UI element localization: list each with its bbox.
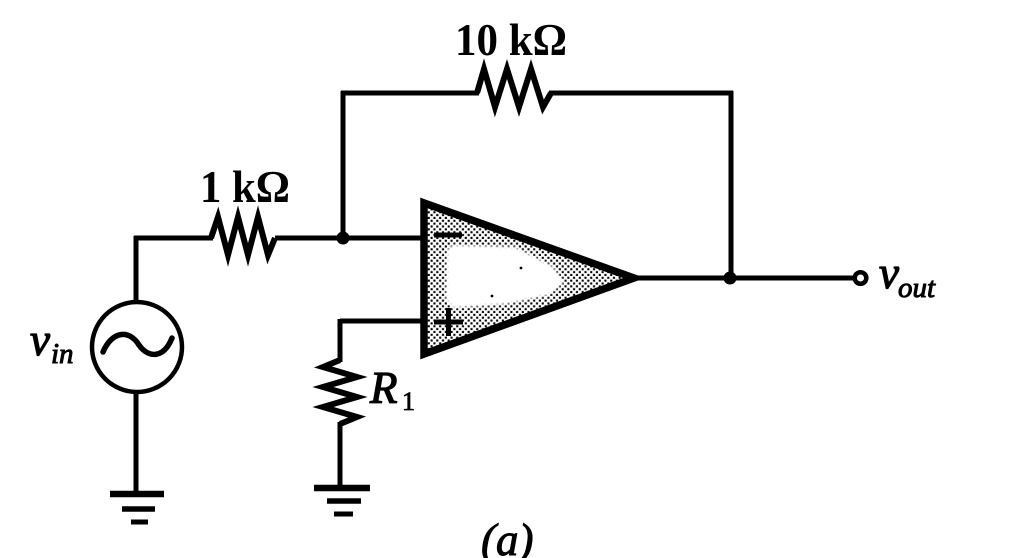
node: inverting input junction bbox=[337, 232, 350, 245]
inverting input minus marker bbox=[434, 233, 462, 238]
svg-text:1 kΩ: 1 kΩ bbox=[200, 162, 290, 212]
resistor 1 kOhm bbox=[211, 217, 275, 255]
node: output junction bbox=[724, 272, 737, 285]
ground under v_in bbox=[110, 494, 164, 522]
svg-text:v: v bbox=[30, 315, 50, 365]
wire: output horizontal bbox=[630, 276, 854, 281]
wire: non-inverting input horizontal bbox=[340, 319, 424, 324]
wire: input horizontal left segment from source to 1 kOhm resistor bbox=[134, 236, 213, 241]
voltage source v_in bbox=[92, 302, 182, 392]
wire: source bottom vertical to ground bbox=[134, 390, 139, 494]
op-amp bbox=[424, 203, 634, 354]
svg-text:10 kΩ: 10 kΩ bbox=[455, 15, 567, 65]
wire: input horizontal right segment from resistor to op-amp inverting input bbox=[275, 236, 424, 241]
wire: top rail right segment bbox=[549, 91, 733, 96]
wire: R1 bottom vertical to ground bbox=[338, 422, 343, 488]
svg-text:out: out bbox=[898, 272, 936, 304]
svg-text:in: in bbox=[51, 338, 74, 370]
wire: feedback left vertical bbox=[341, 91, 346, 238]
wire: feedback right vertical down to output bbox=[729, 91, 734, 278]
wire: vertical from non-inverting input down to R1 bbox=[338, 319, 343, 362]
wire: top rail left segment bbox=[341, 91, 479, 96]
svg-text:1: 1 bbox=[402, 387, 415, 416]
non-inverting input plus marker bbox=[434, 308, 463, 336]
resistor 10 kOhm feedback bbox=[477, 69, 551, 107]
svg-text:v: v bbox=[879, 248, 899, 298]
ground under R1 bbox=[314, 488, 370, 514]
svg-text:R: R bbox=[369, 363, 398, 413]
wire: vertical from input wire down to source top bbox=[134, 236, 139, 304]
resistor R1 bbox=[323, 360, 357, 424]
svg-text:(a): (a) bbox=[481, 515, 533, 558]
output terminal open circle bbox=[855, 272, 867, 284]
